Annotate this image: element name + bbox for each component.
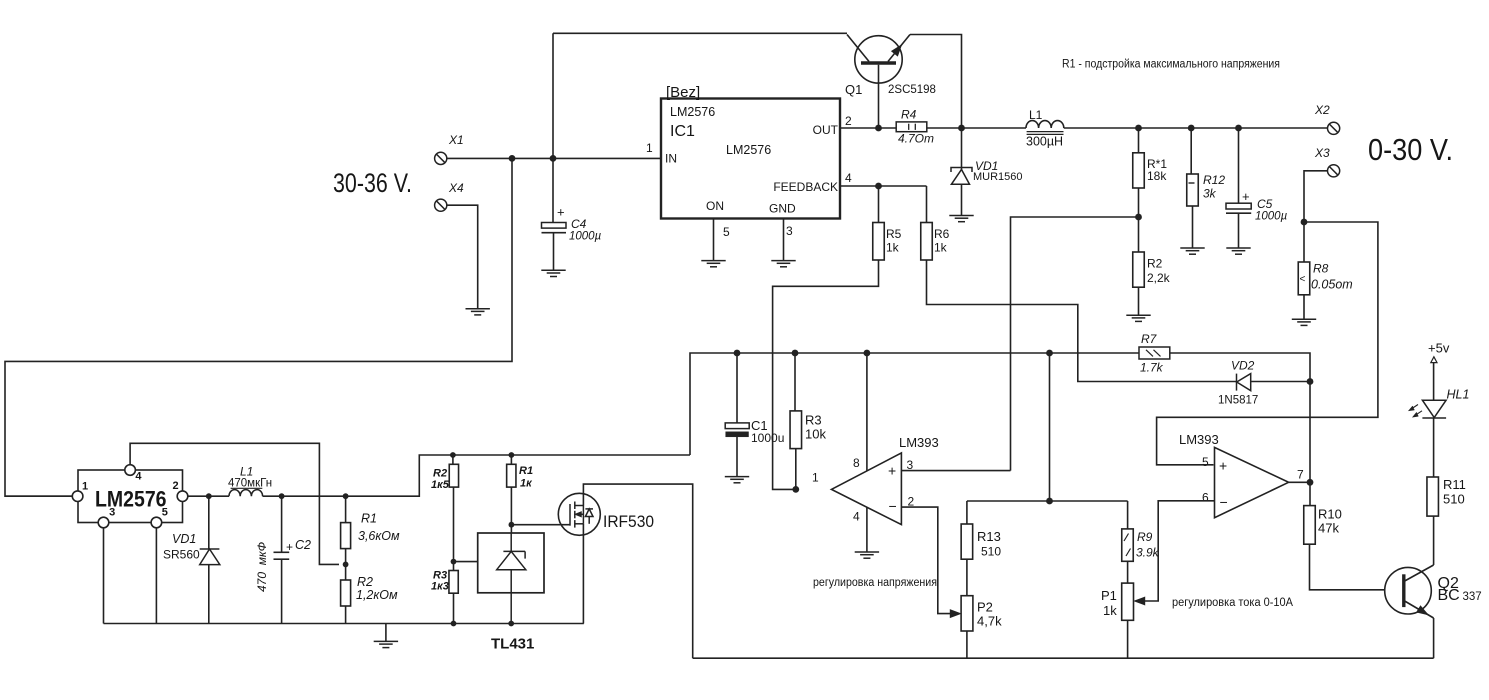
- ground R8: [1292, 319, 1316, 325]
- svg-text:4: 4: [845, 171, 852, 185]
- wire R2 aux to rail: [345, 606, 347, 624]
- wire input node up: [552, 33, 554, 158]
- resistor R10 47k: [1304, 506, 1316, 545]
- svg-text:R1: R1: [361, 512, 377, 526]
- wire C4 to ground: [553, 233, 555, 270]
- resistor R*1 18k: [1133, 153, 1145, 188]
- svg-text:IC1: IC1: [670, 123, 695, 140]
- svg-text:R10: R10: [1318, 507, 1342, 522]
- junction R1 aux top: [343, 493, 349, 499]
- resistor R5 1k: [873, 223, 885, 261]
- wire IC1 OUT: [840, 127, 896, 129]
- svg-text:4: 4: [853, 510, 860, 524]
- svg-text:337: 337: [1463, 591, 1482, 603]
- svg-text:IRF530: IRF530: [603, 512, 654, 531]
- junction VD1 aux: [206, 493, 212, 499]
- diode VD2 1N5817: [1237, 374, 1251, 391]
- terminal X4: [435, 199, 447, 211]
- junction opamp1 input node: [792, 486, 799, 493]
- pin 5 aux: [151, 517, 162, 528]
- svg-text:4,7k: 4,7k: [977, 614, 1002, 629]
- wire Q1 emitter to output node: [910, 35, 962, 129]
- svg-text:4: 4: [135, 471, 142, 483]
- svg-text:6: 6: [1202, 491, 1209, 505]
- ground IC1 ON: [701, 261, 725, 267]
- svg-text:+: +: [1219, 458, 1227, 474]
- svg-text:1: 1: [82, 481, 88, 493]
- svg-text:510: 510: [981, 545, 1001, 559]
- wire aux pin5 down: [155, 528, 157, 624]
- svg-text:FEEDBACK: FEEDBACK: [773, 180, 838, 194]
- svg-text:HL1: HL1: [1447, 388, 1470, 402]
- svg-text:1k: 1k: [934, 241, 948, 255]
- wire opamp1 pin8 supply: [866, 353, 868, 471]
- svg-text:R8: R8: [1313, 262, 1329, 276]
- wire aux pin1: [5, 495, 72, 497]
- wire P1 to bottom rail: [1127, 620, 1129, 658]
- terminal X1: [435, 152, 447, 164]
- ground VD1: [949, 216, 973, 222]
- svg-text:R12: R12: [1203, 173, 1225, 187]
- wire feedback to R5: [878, 186, 880, 223]
- ground C5: [1226, 248, 1250, 254]
- svg-text:OUT: OUT: [813, 123, 839, 137]
- junction R2b top: [450, 452, 456, 458]
- svg-text:1,2кОм: 1,2кОм: [356, 588, 398, 602]
- ground C4: [541, 270, 565, 276]
- wire aux pin3 down: [103, 528, 105, 624]
- MOSFET Q IRF530: [558, 493, 600, 535]
- svg-text:R5: R5: [886, 227, 902, 241]
- wire aux pin4 feedback: [130, 443, 339, 564]
- wire IC1 FEEDBACK: [840, 185, 927, 187]
- svg-text:1: 1: [812, 471, 819, 485]
- svg-text:GND: GND: [769, 202, 796, 216]
- svg-text:18k: 18k: [1147, 169, 1167, 183]
- wire IRF source: [582, 524, 584, 624]
- svg-text:1000µ: 1000µ: [569, 231, 602, 243]
- junction R3 top: [792, 350, 799, 357]
- svg-text:470мкГн: 470мкГн: [228, 478, 272, 490]
- op-amp U3 LM393 (current): [1215, 447, 1289, 517]
- resistor R2 aux 1.2k: [341, 580, 351, 606]
- wire IC1 GND pin to ground: [783, 219, 785, 261]
- svg-text:X4: X4: [448, 181, 464, 195]
- svg-text:R9: R9: [1137, 530, 1153, 544]
- junction aux divider: [343, 562, 349, 568]
- wire C5 to ground: [1238, 213, 1240, 248]
- wire VD2 to output node: [1251, 381, 1310, 383]
- svg-text:2: 2: [173, 480, 179, 492]
- svg-text:<: <: [1300, 274, 1306, 285]
- junction TL431 cathode: [509, 522, 515, 528]
- junction C1 top: [734, 350, 741, 357]
- resistor R8 0.05ohm: [1298, 262, 1310, 295]
- svg-text:5: 5: [723, 225, 730, 239]
- wire X3 to R8: [1304, 171, 1327, 262]
- svg-text:0.05om: 0.05om: [1311, 278, 1353, 292]
- wire R9 to P1: [1127, 561, 1129, 583]
- wire R1b stub: [510, 455, 512, 464]
- svg-text:2SC5198: 2SC5198: [888, 84, 936, 96]
- junction input A: [509, 155, 516, 162]
- diode VD1 MUR1560: [951, 128, 972, 215]
- svg-text:X3: X3: [1314, 146, 1330, 160]
- wire R10 to Q2 base: [1310, 544, 1386, 590]
- wire opamp1 pin2 to P2: [901, 507, 951, 613]
- svg-text:SR560: SR560: [163, 548, 200, 562]
- rail aux positive: [690, 353, 1139, 455]
- wire rail to C5: [1238, 128, 1240, 203]
- resistor R1 aux 3.6k: [341, 523, 351, 549]
- svg-text:P2: P2: [977, 600, 993, 615]
- junction C2 aux: [279, 493, 285, 499]
- svg-text:LM393: LM393: [899, 435, 939, 450]
- potentiometer P1 1k: [1122, 583, 1134, 620]
- pin 4 aux: [125, 465, 136, 476]
- svg-text:регулировка напряжения: регулировка напряжения: [813, 577, 937, 589]
- resistor R1 1k: [507, 464, 516, 487]
- capacitor C2 470uF: [274, 496, 290, 623]
- wire L1 to X2: [1064, 127, 1327, 129]
- wire rail to R*1: [1138, 128, 1140, 153]
- junction R8 top: [1301, 219, 1308, 226]
- svg-text:L1: L1: [1029, 108, 1043, 122]
- shunt regulator TL431 box: [478, 533, 544, 593]
- arrow P1 wiper: [1134, 597, 1145, 605]
- svg-text:VD1: VD1: [172, 532, 196, 546]
- svg-text:3: 3: [109, 507, 115, 519]
- wire aux ground stub: [385, 624, 387, 642]
- svg-text:3: 3: [786, 224, 793, 238]
- resistor R2 1k5: [449, 464, 458, 487]
- svg-text:IN: IN: [665, 152, 677, 166]
- svg-text:регулировка тока 0-10A: регулировка тока 0-10A: [1172, 597, 1293, 609]
- svg-text:X2: X2: [1314, 103, 1330, 117]
- junction VD1 node: [958, 125, 965, 132]
- svg-text:−: −: [889, 498, 897, 514]
- svg-text:L1: L1: [240, 465, 253, 479]
- svg-text:[Bez]: [Bez]: [666, 84, 700, 101]
- junction VD2 node: [1307, 378, 1314, 385]
- svg-text:+: +: [888, 463, 896, 479]
- resistor R3 1k3: [449, 571, 458, 594]
- junction R13/R9 feed: [1046, 498, 1053, 505]
- wire R6 drop: [926, 186, 928, 223]
- svg-text:1k: 1k: [886, 241, 900, 255]
- junction R12 top: [1188, 125, 1195, 132]
- terminal X2: [1328, 122, 1340, 134]
- svg-text:+: +: [557, 205, 565, 220]
- wire R2b stub: [452, 455, 454, 464]
- wire IRF drain: [583, 484, 692, 658]
- svg-text:P1: P1: [1101, 588, 1117, 603]
- svg-text:2: 2: [845, 114, 852, 128]
- rail aux bottom: [104, 623, 584, 625]
- junction feedback: [875, 183, 882, 190]
- wire R9 top stub: [1127, 501, 1129, 529]
- svg-text:4.7Om: 4.7Om: [898, 132, 934, 146]
- svg-text:1к5: 1к5: [431, 479, 450, 491]
- diode VD1 SR560: [200, 496, 220, 623]
- svg-text:47k: 47k: [1318, 521, 1339, 536]
- inductor L1 300uH: [1026, 121, 1064, 135]
- svg-text:510: 510: [1443, 492, 1465, 507]
- resistor R11 510: [1427, 477, 1439, 516]
- ground IC1 GND: [771, 261, 795, 267]
- wire C1 to ground: [736, 437, 738, 477]
- wire aux pin2 out: [188, 495, 229, 497]
- regulator IC1 LM2576 box: [661, 99, 840, 219]
- svg-text:0-30 V.: 0-30 V.: [1368, 132, 1453, 167]
- svg-text:C2: C2: [295, 538, 311, 552]
- svg-text:470 мкФ: 470 мкФ: [255, 541, 269, 592]
- svg-text:X1: X1: [448, 133, 464, 147]
- wire gate: [511, 524, 570, 526]
- wire R4 to L1: [927, 127, 1026, 129]
- wire +5v to LED: [1433, 363, 1435, 401]
- svg-text:R2: R2: [433, 468, 447, 480]
- rail bottom common: [693, 657, 1434, 659]
- svg-text:+: +: [286, 540, 293, 554]
- potentiometer P2 4.7k: [961, 596, 973, 631]
- junction feedback divider: [1135, 214, 1142, 221]
- ground R2: [1126, 315, 1150, 321]
- arrow P2 wiper: [950, 610, 961, 618]
- svg-text:MUR1560: MUR1560: [973, 171, 1023, 183]
- svg-text:300µH: 300µH: [1026, 135, 1063, 149]
- wire opamp1 pin4 gnd: [866, 508, 868, 552]
- svg-text:2,2k: 2,2k: [1147, 271, 1171, 285]
- wire P2 to bottom rail: [966, 631, 968, 658]
- wire R13 top stub: [966, 501, 968, 524]
- wire rail to C1: [736, 353, 738, 423]
- svg-text:1к3: 1к3: [431, 581, 449, 593]
- wire input to Q1 collector: [553, 32, 847, 34]
- junction TL431 anode: [508, 621, 514, 627]
- junction Q1 base / OUT: [875, 125, 882, 132]
- svg-text:+: +: [1242, 189, 1250, 204]
- transistor Q2 BC337: [1385, 565, 1434, 618]
- wire ref to TL431: [454, 561, 478, 563]
- junction opamp1 pin8: [864, 350, 871, 357]
- svg-text:TL431: TL431: [491, 636, 534, 653]
- svg-text:R2: R2: [1147, 257, 1163, 271]
- svg-text:10k: 10k: [805, 427, 826, 442]
- svg-text:VD2: VD2: [1231, 359, 1255, 373]
- resistor R3 10k: [790, 411, 802, 449]
- svg-text:1N5817: 1N5817: [1218, 395, 1258, 407]
- wire R2b down: [453, 487, 455, 570]
- LED HL1: [1409, 400, 1446, 418]
- wire R1b down: [510, 487, 512, 533]
- wire opamp2 pin6: [1144, 501, 1215, 601]
- wire Q2 emitter to rail: [1433, 618, 1435, 658]
- wire rail to R3: [794, 353, 796, 411]
- svg-text:LM2576: LM2576: [95, 487, 167, 512]
- wire R12 to ground: [1192, 206, 1194, 248]
- svg-text:30-36 V.: 30-36 V.: [333, 168, 412, 198]
- wire to C4: [552, 158, 554, 222]
- svg-text:R13: R13: [977, 529, 1001, 544]
- pin 2 aux: [177, 491, 188, 502]
- junction C5 top: [1235, 125, 1242, 132]
- svg-text:C5: C5: [1257, 197, 1273, 211]
- junction TL431 ref: [451, 559, 457, 565]
- svg-text:LM2576: LM2576: [670, 105, 715, 119]
- svg-text:BC: BC: [1438, 587, 1460, 604]
- wire L1 aux to C2: [263, 495, 346, 497]
- svg-text:LM393: LM393: [1179, 432, 1219, 447]
- wire LED to R11: [1433, 418, 1435, 477]
- svg-text:LM2576: LM2576: [726, 143, 771, 157]
- svg-text:R6: R6: [934, 227, 950, 241]
- op-amp U2 LM393 (voltage): [831, 453, 901, 525]
- transistor Q1 2SC5198: [847, 35, 910, 84]
- wire R13 node: [967, 500, 1128, 502]
- TL431 internal symbol: [497, 533, 526, 624]
- svg-text:+5v: +5v: [1428, 341, 1450, 356]
- wire R8 to ground: [1303, 295, 1305, 319]
- svg-text:−: −: [1220, 494, 1228, 510]
- wire IC1 ON pin to ground: [713, 219, 715, 261]
- svg-text:3.9k: 3.9k: [1136, 546, 1160, 560]
- svg-text:R11: R11: [1443, 477, 1466, 492]
- resistor R9 3.9k: [1122, 529, 1134, 561]
- svg-text:7: 7: [1297, 468, 1304, 482]
- wire aux out up: [346, 455, 690, 496]
- supply +5v symbol: [1431, 357, 1437, 363]
- junction R*1 top: [1135, 125, 1142, 132]
- svg-text:R4: R4: [901, 108, 917, 122]
- junction opamp2 output: [1307, 479, 1314, 486]
- svg-text:1.7k: 1.7k: [1140, 361, 1164, 375]
- wire R13 to P2: [966, 559, 968, 596]
- svg-text:5: 5: [162, 507, 168, 519]
- svg-text:1000µ: 1000µ: [1255, 211, 1288, 223]
- resistor R12 3k: [1187, 174, 1199, 206]
- resistor R7 1.7k: [1139, 347, 1170, 359]
- ground X4: [466, 309, 490, 315]
- svg-text:1000u: 1000u: [751, 431, 784, 445]
- wire R3b to rail: [453, 593, 455, 623]
- capacitor C4: [542, 223, 567, 233]
- pin 1 aux: [72, 491, 83, 502]
- junction input B: [550, 155, 557, 162]
- wire R2 to ground: [1138, 287, 1140, 315]
- svg-text:1к: 1к: [520, 478, 533, 490]
- wire opamp1 pin3 to divider: [901, 470, 1010, 472]
- svg-text:8: 8: [853, 456, 860, 470]
- wire rail to R12: [1190, 128, 1192, 174]
- svg-text:ON: ON: [706, 199, 724, 213]
- wire R1 to R2 aux: [345, 549, 347, 580]
- wire R6 to VD2: [927, 260, 1237, 382]
- svg-text:R1: R1: [519, 465, 533, 477]
- svg-text:5: 5: [1202, 455, 1209, 469]
- svg-text:R1 - подстройка максимального: R1 - подстройка максимального напряжения: [1062, 59, 1280, 71]
- wire rail drop to R13 node: [1049, 353, 1051, 501]
- ground R12: [1180, 248, 1204, 254]
- terminal X3: [1328, 165, 1340, 177]
- svg-text:1k: 1k: [1103, 603, 1117, 618]
- rail aux positive right of R7: [1170, 353, 1310, 506]
- wire opamp2 output: [1289, 481, 1310, 483]
- wire R5 to opamp1 output: [773, 260, 879, 489]
- wire R3 to pin1 node: [795, 449, 797, 490]
- svg-text:R2: R2: [357, 575, 373, 589]
- junction R13 feed: [1046, 350, 1053, 357]
- svg-text:Q1: Q1: [845, 82, 862, 97]
- resistor R13 510: [961, 524, 973, 559]
- pin 3 aux: [98, 517, 109, 528]
- resistor R2 2.2k: [1133, 252, 1145, 287]
- svg-text:C4: C4: [571, 217, 587, 231]
- inductor L1 470uH aux: [229, 488, 263, 496]
- svg-text:3,6кОм: 3,6кОм: [358, 529, 400, 543]
- capacitor C5: [1226, 203, 1251, 213]
- svg-text:R3: R3: [805, 413, 822, 428]
- wire X1 to IC1 IN: [448, 157, 661, 159]
- wire divider to comparator: [1011, 217, 1139, 471]
- ground opamp1: [855, 552, 879, 558]
- wire Q1 base down: [878, 65, 880, 128]
- wire Q2 collector to R11: [1433, 516, 1435, 565]
- junction R1b top: [509, 452, 515, 458]
- ground C1: [725, 477, 749, 483]
- svg-text:R7: R7: [1141, 332, 1158, 346]
- svg-text:1: 1: [646, 141, 653, 155]
- capacitor C1 1000u: [725, 423, 749, 437]
- resistor R4: [896, 122, 927, 132]
- junction R3b bottom: [451, 621, 457, 627]
- svg-text:3k: 3k: [1203, 187, 1217, 201]
- resistor R6 1k: [921, 223, 933, 261]
- wire R*1 to R2: [1138, 188, 1140, 252]
- regulator LM2576 aux box: [78, 470, 183, 523]
- wire R1 aux stub: [345, 496, 347, 522]
- wire sense to comparator: [1157, 222, 1378, 465]
- wire X4 to ground: [448, 205, 478, 308]
- ground aux: [374, 641, 398, 647]
- wire input down-left to aux: [5, 158, 512, 496]
